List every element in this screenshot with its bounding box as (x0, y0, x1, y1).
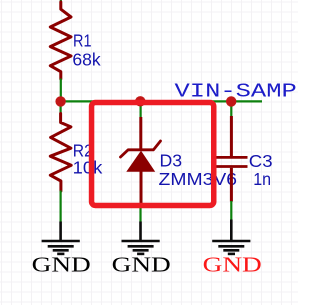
wire C3 to GND (230, 201, 232, 220)
capacitor C3 (216, 116, 248, 202)
svg-text:ZMM3V6: ZMM3V6 (159, 169, 238, 189)
resistor R2 (50, 114, 71, 192)
wire R2 to GND (59, 191, 61, 223)
svg-text:GND: GND (112, 254, 171, 276)
wire node A to R2 (59, 102, 61, 115)
R1 designator label (73, 30, 92, 50)
svg-text:R1: R1 (73, 30, 92, 50)
D3 value ZMM3V6 (159, 169, 238, 189)
svg-text:10k: 10k (73, 158, 103, 178)
svg-text:D3: D3 (160, 151, 183, 171)
wire D3 to GND (139, 205, 141, 222)
junction node C3 branch (226, 96, 236, 106)
D3 designator label (160, 151, 183, 171)
C3 designator label (249, 151, 273, 171)
svg-text:GND: GND (32, 254, 91, 276)
R2 designator label (73, 141, 93, 161)
wire node to capacitor C3 (230, 102, 232, 117)
net label VIN-SAMP (175, 81, 297, 103)
zener diode D3 (121, 117, 161, 207)
svg-text:C3: C3 (249, 151, 273, 171)
C3 value 1n (253, 169, 271, 189)
svg-text:68k: 68k (72, 49, 101, 69)
wire node to zener D3 (140, 102, 142, 118)
resistor R1 (50, 2, 71, 79)
junction node diode branch (135, 96, 145, 106)
R2 value 10k (73, 158, 103, 178)
wire top stub above R1 (60, 0, 62, 3)
junction node A (55, 96, 65, 106)
ground GND middle (112, 222, 171, 277)
R1 value 68k (72, 49, 101, 69)
svg-text:1n: 1n (253, 169, 271, 189)
highlight annotation box around D3 (92, 103, 214, 206)
svg-text:GND: GND (203, 254, 262, 276)
ground GND right (203, 220, 262, 277)
wire R1 to node A (60, 79, 62, 102)
ground GND left (32, 222, 91, 277)
wire horizontal net VIN-SAMP (60, 100, 262, 102)
